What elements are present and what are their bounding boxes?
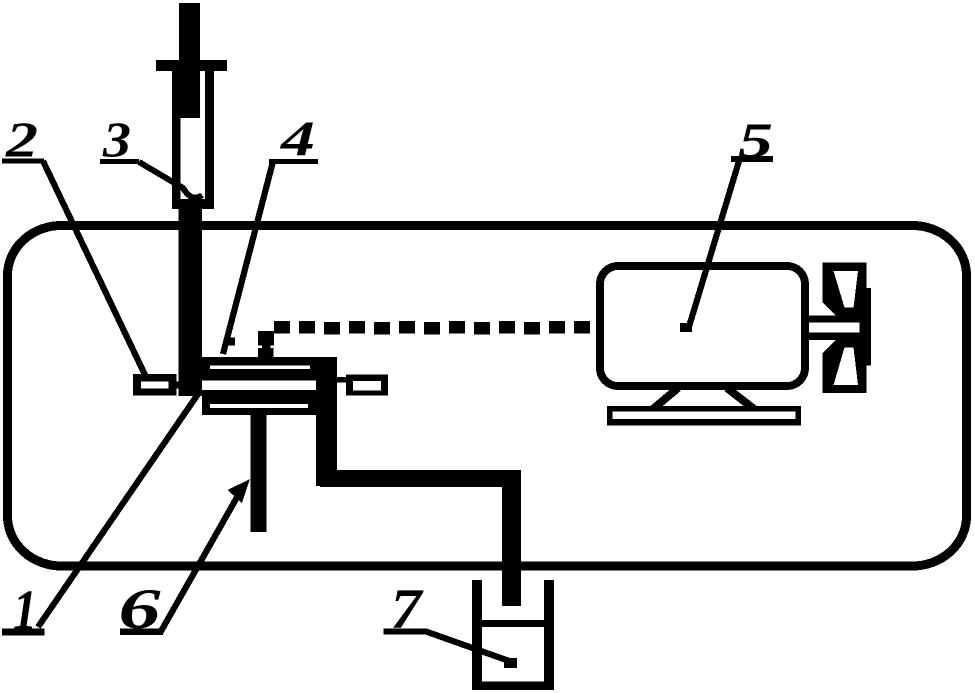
fan shaft xyxy=(805,316,866,323)
chamber enclosure rounded rectangle xyxy=(8,226,967,567)
drain pipe vertical xyxy=(502,472,521,606)
leader line 7 xyxy=(426,632,512,663)
leader line 2 xyxy=(43,161,146,377)
leader line 1 xyxy=(38,394,198,627)
left arm (label 2 target) xyxy=(133,374,177,396)
syringe plunger inside barrel xyxy=(181,71,201,118)
right arm xyxy=(336,377,347,383)
svg-text:4: 4 xyxy=(280,110,315,166)
specimen on stage xyxy=(258,331,274,346)
camera base plate xyxy=(607,406,801,426)
leader line 3 xyxy=(139,162,202,198)
fan right bar xyxy=(860,288,872,366)
leader line 4 xyxy=(223,162,273,355)
stage lower block xyxy=(202,390,316,415)
stage left leg xyxy=(251,415,267,532)
stage top plate xyxy=(200,357,337,381)
leader line 5 xyxy=(688,161,739,330)
syringe needle xyxy=(179,199,203,396)
dotted optical line xyxy=(274,321,590,335)
camera body (label 5) xyxy=(600,266,805,386)
beaker (label 7) xyxy=(472,580,482,689)
camera stand legs xyxy=(653,388,678,409)
svg-text:3: 3 xyxy=(102,111,131,167)
syringe plunger rod xyxy=(179,3,200,118)
fan top blade xyxy=(823,263,867,317)
fan bottom blade xyxy=(823,340,867,393)
stage right column xyxy=(316,357,337,486)
drain pipe horizontal xyxy=(320,470,521,487)
syringe plunger crossbar xyxy=(156,60,227,71)
leader line 6 xyxy=(160,492,240,633)
syringe barrel xyxy=(172,71,214,209)
